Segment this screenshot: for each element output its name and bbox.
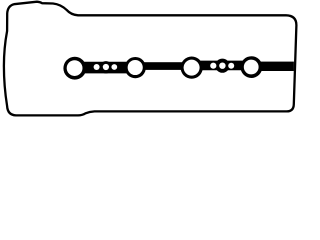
spark plug tube ring 4: [241, 56, 263, 78]
spark plug tube ring 1: [63, 57, 86, 80]
gasket outer contour outline: [4, 2, 297, 116]
washer boss at dot B2: [215, 59, 229, 73]
spark plug tube ring 3: [181, 57, 203, 79]
dotted pad between ring 1 and ring 2: [74, 62, 136, 74]
bolt hole dot A1: [94, 64, 100, 70]
washer boss at dot A2: [100, 61, 112, 73]
bolt hole dot A3: [111, 64, 117, 70]
bolt hole dot B1: [210, 63, 216, 69]
bolt hole dot B2: [219, 62, 225, 68]
bolt hole dot A2: [103, 64, 109, 70]
plain band segment between ring 2 and ring 3: [134, 62, 193, 70]
spark plug tube ring 2: [125, 57, 146, 78]
dotted pad between ring 3 and ring 4: [191, 61, 252, 71]
plain band segment from ring 4 to right edge: [250, 62, 294, 71]
bolt hole dot B3: [228, 63, 234, 69]
